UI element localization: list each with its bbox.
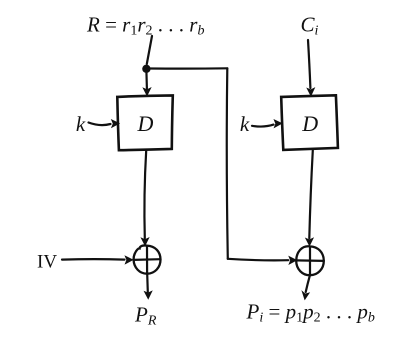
- xor XOR1 cross: [134, 246, 161, 274]
- xor XOR1 (left) circle: [134, 245, 161, 273]
- wire vertical feed-forward (corner down): [227, 68, 228, 258]
- svg-text:R = r1r2 . . . rb: R = r1r2 . . . rb: [86, 13, 204, 39]
- node junction (branch dot): [142, 65, 150, 73]
- svg-text:Pi = p1p2 . . . pb: Pi = p1p2 . . . pb: [246, 300, 375, 326]
- wire XOR2 output with arrowhead: [302, 275, 310, 299]
- wire k to D2 with arrowhead: [252, 120, 282, 128]
- svg-text:D: D: [137, 111, 154, 136]
- wire D1 output to XOR1 with arrowhead: [141, 151, 149, 246]
- node R : input label R = r1r2...rb: [86, 13, 204, 39]
- wire junction to D1 with arrowhead: [143, 71, 151, 96]
- wire XOR1 output with arrowhead: [144, 274, 152, 299]
- xor XOR2 (right) circle: [296, 246, 324, 275]
- block D1 (left decryption box): [117, 95, 173, 150]
- wire k to D1 with arrowhead: [89, 120, 120, 128]
- svg-text:PR: PR: [134, 303, 157, 329]
- wire IV to XOR1 with arrowhead: [62, 256, 133, 264]
- wire Ci to D2 with arrowhead: [307, 40, 314, 96]
- block D2 (right decryption box): [281, 95, 338, 150]
- svg-text:D: D: [301, 111, 318, 136]
- svg-text:Ci: Ci: [301, 13, 319, 39]
- xor XOR2 cross: [296, 247, 324, 276]
- svg-text:IV: IV: [37, 252, 57, 273]
- svg-text:k: k: [240, 112, 250, 136]
- svg-text:k: k: [76, 112, 86, 136]
- wire from R label down to junction: [147, 36, 152, 64]
- wire junction to top-right corner (horizontal): [151, 67, 228, 70]
- wire D2 output to XOR2 with arrowhead: [306, 150, 314, 245]
- wire corner to XOR2 with arrowhead: [228, 257, 297, 265]
